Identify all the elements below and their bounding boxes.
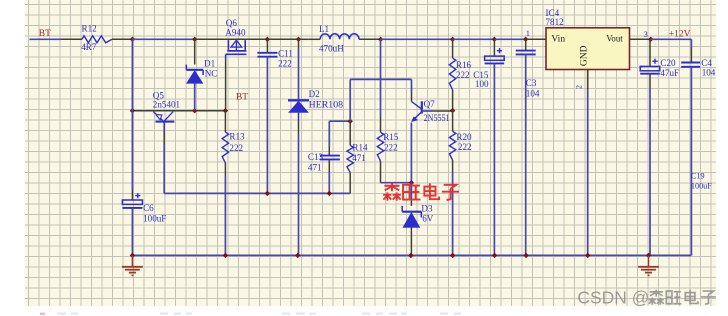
svg-text:471: 471: [308, 162, 322, 172]
label R14 designator: [352, 143, 368, 153]
junction bottom rail R13: [223, 253, 228, 258]
capacitor C15 electrolytic: [485, 39, 505, 255]
wire top rail 132-194: [132, 38, 194, 40]
capacitor C13: [320, 147, 340, 193]
label Q7 value 2N5551: [424, 113, 450, 123]
wire R15 bottom corner to D3 node: [381, 182, 412, 184]
transistor Q5 symbol: [153, 112, 174, 131]
label C13 value 471: [308, 162, 322, 172]
label R13 designator: [229, 132, 245, 142]
junction top rail x194 (D1 tap): [192, 37, 197, 42]
label C4 designator: [701, 58, 712, 68]
label D3 value 6V: [422, 214, 434, 224]
label D3 designator: [421, 204, 433, 214]
svg-text:1: 1: [526, 29, 530, 38]
resistor R12: [61, 36, 132, 43]
capacitor C3: [516, 39, 536, 255]
label R12 value 4R7: [81, 42, 97, 52]
label L1 designator: [319, 24, 329, 34]
label Q6 designator: [226, 18, 238, 28]
label C3 value 104: [526, 89, 540, 99]
label L1 value 470uH: [319, 43, 344, 53]
svg-text:R16: R16: [456, 60, 472, 70]
label C15 designator: [473, 70, 489, 80]
svg-text:D3: D3: [421, 204, 433, 214]
svg-text:7812: 7812: [546, 17, 565, 27]
svg-text:R20: R20: [456, 132, 472, 142]
svg-text:100: 100: [475, 79, 489, 89]
junction bottom rail D2: [295, 253, 300, 258]
svg-text:C6: C6: [143, 203, 154, 213]
svg-text:D1: D1: [204, 58, 215, 68]
wire Q6 gate down to mid rail: [225, 54, 227, 110]
node +12V net label: [669, 30, 691, 40]
svg-text:BT: BT: [236, 92, 248, 102]
wire Q7 emitter down: [410, 123, 412, 183]
svg-text:104: 104: [526, 89, 540, 99]
inductor L1: [308, 34, 380, 40]
ground symbol right: [638, 255, 659, 275]
label R16 value 222: [456, 70, 470, 80]
svg-text:HER108: HER108: [309, 99, 344, 109]
wire IC4 pin3 lead: [630, 38, 651, 40]
capacitor C11: [257, 39, 277, 193]
wire top rail 452-494: [453, 38, 495, 40]
wire top rail 298-308: [299, 38, 309, 40]
node BT input net label: [39, 29, 51, 39]
resistor R16: [449, 39, 455, 110]
svg-text:222: 222: [278, 58, 292, 68]
capacitor C6 electrolytic: [122, 190, 142, 255]
label C20 value 47uF: [660, 68, 679, 78]
svg-text:104: 104: [702, 68, 716, 78]
junction bottom rail C20/ground: [646, 253, 651, 258]
svg-text:C13: C13: [308, 152, 324, 162]
junction bottom rail C6/ground: [130, 253, 135, 258]
junction top rail x132: [130, 37, 135, 42]
svg-text:R15: R15: [383, 132, 399, 142]
node BT net label near Q6 gate: [236, 92, 248, 102]
red watermark text sen-wang-dian-zi: [383, 183, 459, 200]
svg-text:+12V: +12V: [669, 30, 691, 40]
label C6 designator: [143, 203, 154, 213]
regulator IC4 7812 body: [546, 28, 630, 70]
resistor R20: [449, 111, 455, 256]
diode D2 HER108: [288, 39, 309, 255]
svg-text:CSDN @: CSDN @: [577, 288, 649, 308]
ground symbol left: [122, 255, 143, 275]
label C20 designator: [660, 58, 676, 68]
svg-text:222: 222: [229, 143, 243, 153]
wire top rail 494-525: [494, 38, 525, 40]
svg-text:NC: NC: [205, 69, 218, 79]
svg-text:L1: L1: [319, 24, 329, 34]
label IC4 pin number 3: [644, 30, 648, 39]
gray watermark CSDN: [577, 288, 715, 308]
label C19 value 100uF: [691, 182, 712, 191]
junction mid rail x132: [130, 108, 135, 113]
svg-text:C11: C11: [278, 48, 293, 58]
label D1 designator: [204, 58, 215, 68]
label Q5 value 2n5401: [153, 100, 180, 110]
svg-text:222: 222: [384, 142, 398, 152]
label D2 value HER108: [309, 99, 344, 109]
label D1 value NC: [205, 69, 218, 79]
label IC4 pin number 2: [575, 85, 584, 89]
svg-text:2N5551: 2N5551: [424, 113, 450, 123]
svg-text:2: 2: [575, 85, 584, 89]
wire node rail y193: [178, 192, 350, 194]
svg-text:4R7: 4R7: [81, 42, 97, 52]
label R14 value 471: [352, 153, 366, 163]
junction top rail x525 (C3 tap): [523, 37, 528, 42]
label R12 designator: [82, 24, 98, 34]
label R20 designator: [456, 132, 472, 142]
resistor R14: [347, 121, 353, 193]
capacitor C20 electrolytic: [640, 39, 660, 255]
svg-text:R14: R14: [352, 143, 368, 153]
wire top rail 267-298: [267, 38, 298, 40]
svg-text:Vin: Vin: [551, 35, 565, 45]
junction x350 y121: [348, 119, 353, 124]
wire IC4 pin2 GND lead: [587, 70, 589, 256]
junction y193 x329: [327, 191, 332, 196]
wire Q7 collector run: [350, 79, 411, 121]
resistor R13: [222, 111, 228, 256]
label C15 value 100: [475, 79, 489, 89]
svg-text:R13: R13: [229, 132, 245, 142]
label Q7 designator: [424, 99, 436, 109]
wire +12V to C4 corner: [651, 39, 692, 48]
junction mid rail x225 (R13 top): [223, 108, 228, 113]
label C3 designator: [526, 78, 537, 88]
diode D3 zener: [402, 183, 421, 256]
label C4 value 104: [702, 68, 716, 78]
label C13 designator: [308, 152, 324, 162]
wire left column x132: [131, 39, 133, 190]
label IC4 pin number 1: [526, 29, 530, 38]
junction bottom rail IC4 GND: [585, 253, 590, 258]
svg-text:R12: R12: [82, 24, 98, 34]
junction bottom rail R20: [450, 253, 455, 258]
wire top rail 380-452: [381, 38, 453, 40]
junction x411 y182 (D3 top): [409, 180, 414, 185]
svg-text:2n5401: 2n5401: [153, 100, 180, 110]
svg-text:100uF: 100uF: [691, 182, 712, 191]
label R20 value 222: [458, 142, 472, 152]
label R15 value 222: [384, 142, 398, 152]
junction top rail x494 (C15 tap): [492, 37, 497, 42]
label R16 designator: [456, 60, 472, 70]
svg-text:222: 222: [458, 142, 472, 152]
svg-text:C3: C3: [526, 78, 537, 88]
wire IC4 pin1 lead: [526, 38, 546, 40]
junction mid rail x194 (D1 bottom): [192, 108, 197, 113]
junction bottom rail C3: [523, 253, 528, 258]
svg-text:C19: C19: [691, 171, 705, 180]
junction top rail x298 (D2 tap): [296, 37, 301, 42]
capacitor C4: [681, 48, 700, 255]
transistor Q7 symbol: [411, 101, 421, 121]
svg-text:C4: C4: [701, 58, 712, 68]
svg-text:GND: GND: [580, 45, 590, 66]
decor faint cutoff watermark row: [40, 313, 461, 316]
svg-text:100uF: 100uF: [143, 213, 166, 223]
junction top rail x650 (C20 tap): [648, 37, 653, 42]
svg-text:3: 3: [644, 30, 648, 39]
label C11 value 222: [278, 58, 292, 68]
label IC4 value 7812: [546, 17, 565, 27]
junction y193 x267: [265, 191, 270, 196]
svg-text:D2: D2: [309, 89, 321, 99]
svg-text:C20: C20: [660, 58, 676, 68]
svg-text:471: 471: [352, 153, 366, 163]
label C11 designator: [278, 48, 293, 58]
label Q5 designator: [153, 91, 165, 101]
svg-text:Q7: Q7: [424, 99, 436, 109]
wire BT input segment: [30, 38, 62, 40]
wire C13 top corner: [329, 121, 350, 147]
diode D1 zener: [186, 39, 203, 110]
svg-text:470uH: 470uH: [319, 43, 344, 53]
wire Q7 base to R16/R20 node: [422, 110, 453, 112]
label C6 value 100uF: [143, 213, 166, 223]
svg-text:Vout: Vout: [606, 35, 623, 45]
junction top rail x267 (C11 tap): [265, 37, 270, 42]
wire bottom rail: [132, 254, 691, 256]
junction bottom rail D3: [408, 253, 413, 258]
label D2 designator: [309, 89, 321, 99]
label R15 designator: [383, 132, 399, 142]
junction x452 y110: [450, 108, 455, 113]
resistor R15: [377, 39, 383, 182]
junction bottom rail C15: [492, 253, 497, 258]
svg-text:BT: BT: [39, 29, 51, 39]
wire mid rail 132-225: [132, 110, 225, 112]
label R13 value 222: [229, 143, 243, 153]
svg-text:6V: 6V: [422, 214, 434, 224]
wire Q5 base down and corner: [164, 131, 178, 193]
junction top rail x452 (R16 tap): [450, 37, 455, 42]
svg-text:47uF: 47uF: [660, 68, 679, 78]
svg-text:A940: A940: [225, 27, 246, 37]
wire top rail 194-267 (Q6 pins): [195, 38, 268, 40]
transistor Q6 symbol: [226, 40, 247, 54]
label C19 designator: [691, 171, 705, 180]
junction top rail x380: [378, 37, 383, 42]
label Q6 value A940: [225, 27, 246, 37]
svg-text:222: 222: [456, 70, 470, 80]
label IC4 designator: [546, 8, 560, 18]
